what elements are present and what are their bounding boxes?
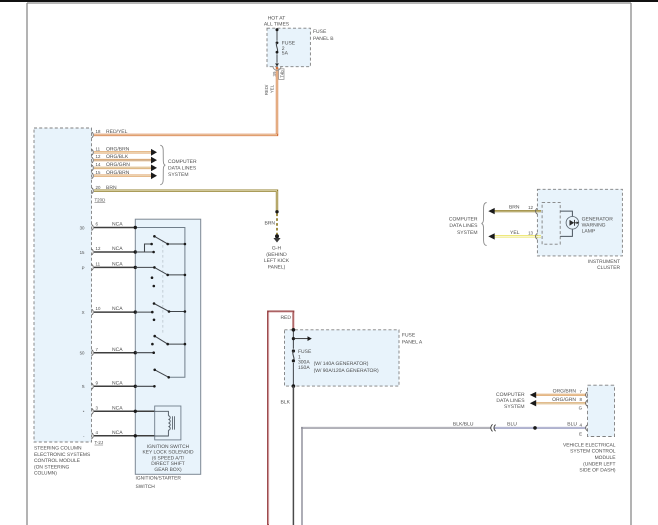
svg-text:(UNDER LEFT: (UNDER LEFT [583,461,615,467]
arrow data line 12 [151,157,157,164]
switch row 12 contact feed [135,244,153,252]
pin label 3 / NCA / * [83,405,123,414]
wire NCA pin 4 [94,435,155,437]
svg-text:BLK: BLK [281,400,291,406]
instrument cluster box [537,189,622,256]
svg-text:30: 30 [80,226,85,231]
svg-text:20: 20 [96,185,101,190]
pin 8 socket arc [586,400,588,406]
switch blade 2 [151,266,187,287]
pin label 18 / RED/YEL [96,129,128,135]
arrow to data lines pin8 [530,400,536,406]
arrow to data lines YEL [488,233,494,239]
svg-text:G-H: G-H [272,246,282,252]
svg-text:IGNITION SWITCH: IGNITION SWITCH [147,444,190,450]
svg-text:FUSE: FUSE [402,332,416,338]
cluster lamp wiring [560,211,572,236]
switch row 7 contact feed [135,352,153,354]
inline connector symbol [491,424,496,431]
svg-text:BLU: BLU [507,421,517,427]
pin 15 socket arc [92,173,94,179]
svg-text:GEAR BOX): GEAR BOX) [154,467,182,473]
pin label 12 / NCA / 15 [80,246,124,255]
steering column module box [34,128,92,442]
svg-text:YEL: YEL [510,230,520,236]
pin 4 socket arc [586,425,588,431]
svg-text:SWITCH: SWITCH [136,484,156,490]
wire RED center stripe [269,312,294,524]
cluster inner connector box [542,202,560,244]
arrow to data lines BRN [488,208,494,214]
caption ignition switch key lock solenoid [142,444,193,473]
svg-text:COMPUTER: COMPUTER [168,159,197,165]
wire ORG/BLK pin 12 [94,159,151,161]
ground G-H symbol [273,238,280,243]
svg-text:4: 4 [580,422,583,427]
svg-text:INSTRUMENT: INSTRUMENT [588,259,620,265]
wire ORG/BRN pin 15 [94,174,151,176]
label ORG/BRN / 7 [553,389,583,395]
svg-text:7: 7 [580,389,583,394]
pin 4 socket arc [92,433,94,439]
svg-text:KEY LOCK SOLENOID: KEY LOCK SOLENOID [142,450,193,456]
arrow data line 15 [151,172,157,179]
svg-text:BRN: BRN [264,220,275,226]
connector ID box T4b [279,69,285,80]
switch blade 5 [153,369,170,388]
pin 9 socket arc [92,383,94,389]
pin 14 socket arc [92,165,94,171]
svg-text:ORG/GRN: ORG/GRN [552,397,576,403]
connector arrow at fuse B exit [275,63,279,66]
svg-text:BRN: BRN [106,185,117,191]
node pin11 [134,266,137,269]
svg-text:NCA: NCA [112,262,123,268]
svg-text:NCA: NCA [112,405,123,411]
svg-text:NCA: NCA [112,306,123,312]
caption INSTRUMENT CLUSTER [588,259,621,271]
svg-text:G: G [579,405,583,410]
svg-text:ORG/GRN: ORG/GRN [106,162,130,168]
solenoid core lines [173,416,175,429]
solenoid coil [155,411,171,436]
switch blade 3 [151,302,186,321]
svg-text:BLU: BLU [567,421,577,427]
svg-text:12: 12 [528,205,533,210]
svg-text:7: 7 [96,347,99,352]
wire NCA pin 9 [94,385,135,387]
value label FUSE 1 300A 150A [298,349,312,371]
label FUSE PANEL A [402,332,423,345]
wire ORG/BRN pin 11 [94,151,151,153]
wire BLK below fuse panel A [292,386,294,525]
svg-text:NCA: NCA [112,222,123,228]
svg-text:S: S [82,384,85,389]
svg-text:BRN: BRN [509,205,520,211]
arrow to data lines pin7 [530,392,536,398]
node BLU junction [533,426,537,430]
svg-text:X: X [82,310,85,315]
svg-text:(6 SPEED A/T/: (6 SPEED A/T/ [152,455,185,461]
switch row 11 contact feed [135,266,154,268]
pin 12 socket arc cluster [536,208,538,214]
node pin6 [134,226,137,229]
svg-text:6: 6 [96,222,99,227]
svg-text:5A: 5A [282,50,289,56]
svg-text:PANEL): PANEL) [268,264,286,270]
label COMPUTER DATA LINES SYSTEM cluster [449,217,478,236]
switch linkage dashed line [162,240,164,334]
svg-text:ORG/BLK: ORG/BLK [106,154,129,160]
svg-text:SYSTEM: SYSTEM [457,230,478,236]
svg-text:E: E [579,431,582,436]
wire YEL pin 13 [494,235,541,237]
wire NCA pin 10 [94,311,135,313]
label ORG/GRN / 8 / G [552,397,582,411]
wire ORG/GRN pin 14 [94,167,151,169]
caption vehicle electrical system control module [563,442,616,473]
pin label 14 / ORG/GRN [96,162,131,168]
node fuse A top [292,328,296,332]
svg-text:150A: 150A [298,365,310,371]
pin label 4 / NCA / - [83,430,123,439]
page frame top black bar [0,0,658,2]
pin label 7 / NCA / 50 [80,347,124,356]
contact dots row 12 [150,243,155,254]
pin label 20 / BRN [96,185,117,191]
wire BLK/BLU run [302,428,586,525]
wire RED/YEL vertical from fuse panel B [276,67,278,135]
svg-text:DATA LINES: DATA LINES [168,166,197,172]
fuse panel A box [285,330,400,386]
pin 20 socket arc [92,188,94,194]
branch arrow inside fuse panel A [292,336,312,341]
node pin10 [134,310,137,313]
svg-text:8: 8 [580,397,583,402]
wire NCA pin 12 [94,251,135,253]
wire BRN pin 12 [494,210,541,212]
svg-text:SYSTEM: SYSTEM [168,172,189,178]
svg-text:*: * [83,410,85,415]
pin 11L socket arc [92,264,94,270]
svg-text:(BEHIND: (BEHIND [266,252,287,258]
svg-text:CLUSTER: CLUSTER [597,265,620,271]
svg-text:BLK/BLU: BLK/BLU [453,421,474,427]
pin 3 socket arc [92,408,94,414]
wire ORG/GRN pin 8 [535,402,586,404]
svg-text:CONTROL MODULE: CONTROL MODULE [34,458,81,464]
svg-text:DATA LINES: DATA LINES [496,398,525,404]
svg-text:RED/: RED/ [264,84,269,95]
label FUSE PANEL B [313,29,334,42]
label YEL / 13 [510,230,534,236]
svg-text:RED/YEL: RED/YEL [106,129,128,135]
fuse panel B box [267,28,310,66]
svg-text:COLUMN): COLUMN) [34,471,57,477]
node pin4 [134,434,137,437]
svg-text:P: P [82,265,85,270]
svg-text:NCA: NCA [112,380,123,386]
brace computer data lines cluster [482,203,487,246]
svg-text:15: 15 [96,170,101,175]
note generator variants [314,361,379,374]
svg-text:14: 14 [96,162,101,167]
svg-text:SYSTEM: SYSTEM [504,404,525,410]
svg-text:FUSE: FUSE [313,29,327,35]
pin 10 socket arc [92,309,94,315]
switch common bus [135,228,185,378]
ignition switch box [135,219,200,474]
svg-text:10: 10 [96,306,101,311]
label COMPUTER DATA LINES SYSTEM right [496,392,525,410]
vehicle electrical system control module box [588,385,615,436]
pin 11 socket arc [92,149,94,155]
svg-text:RED: RED [280,315,291,321]
switch blade 1 [153,235,186,245]
wire inside fuse panel B [276,28,278,63]
node pin12 [134,250,137,253]
svg-text:SYSTEM CONTROL: SYSTEM CONTROL [570,449,616,455]
pin 18 socket arc [92,132,94,138]
svg-text:50: 50 [80,351,85,356]
pin label 9 / NCA / S [82,380,124,389]
svg-text:DATA LINES: DATA LINES [449,223,478,229]
svg-text:COMPUTER: COMPUTER [449,217,478,223]
node pin9 [134,385,137,388]
svg-text:ELECTRONIC SYSTEMS: ELECTRONIC SYSTEMS [34,452,91,458]
svg-text:PANEL A: PANEL A [402,339,423,345]
value label FUSE 2 5A [282,41,296,57]
pin 12L socket arc [92,249,94,255]
generator warning lamp [566,217,579,230]
svg-text:(ON STEERING: (ON STEERING [34,464,70,470]
fuse F2 5A symbol [276,41,279,53]
svg-text:NCA: NCA [112,347,123,353]
svg-text:ALL TIMES: ALL TIMES [264,21,290,27]
svg-text:T20D: T20D [95,198,106,203]
svg-text:3: 3 [96,405,99,410]
label HOT AT ALL TIMES [264,15,290,27]
pin 7 socket arc [92,350,94,356]
node BRN junction [275,210,278,213]
svg-text:9: 9 [96,380,99,385]
svg-text:18: 18 [96,129,101,134]
svg-text:4: 4 [96,430,99,435]
svg-text:ORG/BRN: ORG/BRN [106,146,130,152]
svg-text:11: 11 [96,146,101,151]
node fuse A bottom [292,384,296,388]
wire RED riser [268,312,293,525]
svg-text:STEERING COLUMN: STEERING COLUMN [34,446,82,452]
fuse F1 symbol [292,349,295,362]
wire BRN pin 20 [94,190,277,212]
wire inside fuse panel A [292,330,294,386]
node pin3 [134,410,137,413]
pin label 10 / NCA / X [82,306,124,315]
svg-text:(W/ 140A GENERATOR): (W/ 140A GENERATOR) [314,361,369,367]
wire NCA pin 11 [94,266,135,268]
pin label 11 / NCA / P [82,262,124,271]
pin label 11 / ORG/BRN [96,146,130,152]
brace computer data lines [160,145,165,185]
svg-text:13: 13 [528,230,533,235]
switch row 10 contact feed [135,311,152,313]
wire ORG/BRN pin 7 [535,394,586,396]
svg-text:HOT AT: HOT AT [268,15,286,21]
svg-text:T-2J: T-2J [95,440,104,445]
arrow data line 14 [151,165,157,172]
label COMPUTER DATA LINES SYSTEM [168,159,197,178]
svg-text:15: 15 [80,250,85,255]
svg-text:MODULE: MODULE [595,455,617,461]
wire NCA pin 7 [94,352,135,354]
svg-text:NCA: NCA [112,430,123,436]
caption IGNITION/STARTER SWITCH [136,476,182,490]
svg-text:PANEL B: PANEL B [313,36,334,42]
switch row 9 contact feed [135,385,154,387]
svg-text:ORG/BRN: ORG/BRN [106,170,130,176]
label GENERATOR WARNING LAMP [582,216,614,234]
wire NCA pin 3 [94,410,155,412]
wire NCA pin 6 [94,227,135,229]
wire BRN ground segment dashed [276,214,278,235]
pin 13 socket arc cluster [536,233,538,239]
node fuse B input [276,28,279,31]
svg-text:NCA: NCA [112,246,123,252]
label BRN / 12 [509,205,534,211]
svg-text:(W/ 90A/120A GENERATOR): (W/ 90A/120A GENERATOR) [314,368,379,374]
pin 6 socket arc [92,225,94,231]
svg-text:DIRECT SHIFT: DIRECT SHIFT [151,461,185,467]
node ground junction [275,234,279,238]
connector socket arc fuse B [273,66,281,70]
svg-text:T4b: T4b [279,70,284,78]
svg-text:SIDE OF DASH): SIDE OF DASH) [579,468,616,474]
svg-text:12: 12 [96,154,101,159]
svg-text:YEL: YEL [269,84,274,93]
svg-text:12: 12 [96,246,101,251]
pin label 12 / ORG/BLK [96,154,129,160]
switch blade 4 [151,335,186,354]
pin label 6 / NCA / 30 [80,222,124,231]
svg-text:11: 11 [96,262,101,267]
node pin7 [134,351,137,354]
pin 7 socket arc [586,392,588,398]
svg-text:ORG/BRN: ORG/BRN [553,389,577,395]
svg-text:COMPUTER: COMPUTER [496,392,525,398]
label 4 / E [579,422,582,436]
pin label 15 / ORG/BRN [96,170,130,176]
label G-H (BEHIND LEFT KICK PANEL) [264,246,290,271]
svg-text:LAMP: LAMP [582,228,596,234]
svg-text:VEHICLE ELECTRICAL: VEHICLE ELECTRICAL [563,442,616,448]
pin 12 socket arc [92,157,94,163]
label RED/ YEL rotated [264,84,274,95]
key lock solenoid box [155,406,181,440]
arrow data line 11 [151,149,157,156]
wire RED/YEL pin 18 horizontal [94,134,278,136]
svg-text:IGNITION/STARTER: IGNITION/STARTER [136,476,182,482]
svg-text:LEFT KICK: LEFT KICK [264,258,290,264]
caption steering column module [34,446,91,477]
